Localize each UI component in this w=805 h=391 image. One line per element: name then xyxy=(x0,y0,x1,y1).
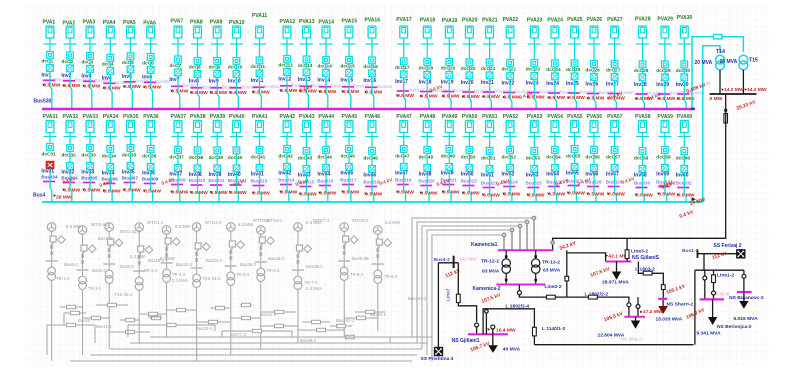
svg-text:Inv58: Inv58 xyxy=(634,172,647,178)
svg-text:dcC51: dcC51 xyxy=(481,155,496,161)
PV feeder unit PVA2: PV array, converter dcC2, inverter Inv2 xyxy=(61,21,90,109)
svg-text:PVA44: PVA44 xyxy=(319,114,335,120)
svg-text:TR-12-2: TR-12-2 xyxy=(481,259,499,265)
svg-text:Inv51: Inv51 xyxy=(481,172,494,178)
svg-text:NS Sharri-2: NS Sharri-2 xyxy=(667,302,694,308)
PV feeder unit PVA22: PV array, converter dcC22, inverter Inv22 xyxy=(502,17,531,109)
svg-text:0.5 MW: 0.5 MW xyxy=(63,83,80,89)
svg-text:Inv26: Inv26 xyxy=(585,82,598,88)
svg-text:6.3 MW: 6.3 MW xyxy=(238,222,254,227)
svg-text:TR-1-2: TR-1-2 xyxy=(56,276,70,281)
svg-text:PVA23: PVA23 xyxy=(527,18,543,24)
svg-text:15.033 MVA: 15.033 MVA xyxy=(656,316,683,322)
svg-text:37: 37 xyxy=(706,81,711,86)
svg-text:Bus4: Bus4 xyxy=(33,192,45,198)
svg-text:0.5 MW: 0.5 MW xyxy=(397,189,414,195)
PV feeder unit PVA23: PV array, converter dcC23, inverter Inv23 xyxy=(526,18,555,109)
svg-text:PVA53: PVA53 xyxy=(527,114,543,120)
de-energized wind farm collector network (gray) xyxy=(46,223,392,361)
svg-text:6.3 MW: 6.3 MW xyxy=(385,220,401,225)
svg-text:6.3 MW: 6.3 MW xyxy=(66,224,82,229)
svg-text:PVA8: PVA8 xyxy=(190,20,203,26)
SS Ferizaj 2 external grid xyxy=(698,253,737,255)
wind turbine WTG1-2 with unit transformer xyxy=(46,223,66,361)
svg-text:dcC7: dcC7 xyxy=(169,63,181,69)
svg-text:0.5 MW: 0.5 MW xyxy=(365,191,382,197)
svg-text:0.5 MW: 0.5 MW xyxy=(83,187,100,193)
svg-text:TR-8-2: TR-8-2 xyxy=(350,272,364,277)
svg-text:5.02 M: 5.02 M xyxy=(716,292,730,297)
svg-text:dcC55: dcC55 xyxy=(566,153,581,159)
PV feeder unit PVA31: PV array, converter dcC31, inverter Inv31 xyxy=(41,114,58,202)
feeder total power label 28 MW xyxy=(54,194,57,197)
svg-text:dcC6: dcC6 xyxy=(142,60,154,66)
svg-text:Bus530: Bus530 xyxy=(34,98,52,104)
svg-text:TR-7-2: TR-7-2 xyxy=(304,280,318,285)
svg-text:14.2 MW: 14.2 MW xyxy=(747,87,767,93)
PV feeder unit PVA7: PV array, converter dcC7, inverter Inv7 xyxy=(169,19,198,109)
svg-text:Inv17: Inv17 xyxy=(395,79,408,85)
svg-text:Inv16: Inv16 xyxy=(363,78,376,84)
svg-text:Inv20: Inv20 xyxy=(461,80,474,86)
svg-text:0.5 MW: 0.5 MW xyxy=(443,94,460,100)
PV feeder unit PVA13: PV array, converter dcC13, inverter Inv13 xyxy=(298,19,327,109)
svg-text:0.5 MW: 0.5 MW xyxy=(504,191,521,197)
svg-text:PVA58: PVA58 xyxy=(635,114,651,120)
busbar Bus4 (row 2 LV collector bus) xyxy=(42,201,703,203)
PV feeder unit PVA39: PV array, converter dcC39, inverter Inv39 xyxy=(208,114,227,202)
svg-text:0.5 MW: 0.5 MW xyxy=(211,90,228,96)
svg-text:dcC31: dcC31 xyxy=(41,151,56,157)
PV feeder unit PVA34: PV array, converter dcC34, inverter Inv34 xyxy=(102,114,121,202)
svg-text:Inv59: Inv59 xyxy=(656,171,669,177)
svg-text:Inv47: Inv47 xyxy=(395,170,408,176)
PV feeder unit PVA50: PV array, converter dcC50, inverter Inv50 xyxy=(461,114,480,202)
PV feeder unit PVA15: PV array, converter dcC15, inverter Inv15 xyxy=(340,19,369,109)
svg-text:Bus7-2: Bus7-2 xyxy=(98,236,112,241)
svg-text:Bus10-2: Bus10-2 xyxy=(370,312,387,317)
PV feeder unit PVA44: PV array, converter dcC44, inverter Inv44 xyxy=(317,114,336,202)
PV feeder unit PVA38: PV array, converter dcC38, inverter Inv38 xyxy=(189,114,208,202)
svg-text:PVA49: PVA49 xyxy=(442,114,458,120)
PV feeder unit PVA28: PV array, converter dcC28, inverter Inv28 xyxy=(634,17,663,109)
PV feeder unit PVA56: PV array, converter dcC56, inverter Inv56 xyxy=(585,114,604,202)
svg-text:dcC25: dcC25 xyxy=(566,67,581,73)
svg-text:dcC52: dcC52 xyxy=(502,154,517,160)
svg-text:WTG5-2: WTG5-2 xyxy=(253,218,270,223)
PV feeder unit PVA4: PV array, converter dcC4, inverter Inv4 xyxy=(102,20,131,109)
svg-text:PVA17: PVA17 xyxy=(396,17,412,23)
svg-text:Inv10: Inv10 xyxy=(228,79,241,85)
svg-text:PVA24: PVA24 xyxy=(547,18,563,24)
PV feeder unit PVA41: PV array, converter dcC41, inverter Inv41 xyxy=(251,114,270,202)
svg-text:dcC3: dcC3 xyxy=(81,59,93,65)
PV feeder unit PVA24: PV array, converter dcC24, inverter Inv24 xyxy=(546,18,575,109)
wind turbine WTG10-2 with unit transformer xyxy=(338,223,358,337)
svg-text:16.4 MW: 16.4 MW xyxy=(496,327,516,333)
svg-text:PVA39: PVA39 xyxy=(210,114,226,120)
svg-text:PVA38: PVA38 xyxy=(190,114,206,120)
svg-text:NS Berivojca-2: NS Berivojca-2 xyxy=(717,324,752,330)
wind turbine WTG3-2 with unit transformer xyxy=(103,223,123,349)
svg-text:0.5 MW: 0.5 MW xyxy=(280,189,297,195)
svg-text:Inv18: Inv18 xyxy=(419,80,432,86)
wind turbine WTG9-2 with unit transformer xyxy=(292,223,312,343)
svg-text:0.5 MW: 0.5 MW xyxy=(191,190,208,196)
svg-text:Inv49: Inv49 xyxy=(441,170,454,176)
svg-text:PVA35: PVA35 xyxy=(123,114,139,120)
svg-text:0.5 MW: 0.5 MW xyxy=(171,89,188,95)
PV feeder unit PVA19: PV array, converter dcC19, inverter Inv19 xyxy=(441,18,470,109)
svg-text:dcC15: dcC15 xyxy=(340,63,355,69)
svg-text:0.5 MW: 0.5 MW xyxy=(397,93,414,99)
Kamenica-2 busbar xyxy=(496,284,545,286)
PV feeder unit PVA57: PV array, converter dcC57, inverter Inv57 xyxy=(606,114,625,202)
cyan riser from Bus4 to transformer T14 xyxy=(703,46,720,202)
PV feeder unit PVA32: PV array, converter dcC32, inverter Inv32 xyxy=(61,114,80,202)
svg-text:Inv14: Inv14 xyxy=(317,78,330,84)
svg-text:0.5 MW: 0.5 MW xyxy=(124,187,141,193)
transformer TR-12-2 63 MVA xyxy=(505,250,507,258)
svg-text:Inv45: Inv45 xyxy=(340,170,353,176)
svg-text:Inv12: Inv12 xyxy=(278,77,291,83)
svg-text:0.5 MW: 0.5 MW xyxy=(144,85,161,91)
svg-text:PVA45: PVA45 xyxy=(342,114,358,120)
svg-text:Bus5-2: Bus5-2 xyxy=(92,268,106,273)
svg-text:Inv19: Inv19 xyxy=(441,80,454,86)
svg-text:dcC49: dcC49 xyxy=(441,153,456,159)
svg-text:6.3 MW: 6.3 MW xyxy=(175,224,191,229)
wind turbine WTG2-2 with unit transformer xyxy=(77,226,97,355)
svg-text:TXS-26-2: TXS-26-2 xyxy=(114,292,133,297)
svg-text:20 MVA: 20 MVA xyxy=(695,60,713,66)
svg-text:dcC44: dcC44 xyxy=(317,154,332,160)
svg-text:0 MW: 0 MW xyxy=(710,96,723,102)
PV feeder unit PVA12: PV array, converter dcC12, inverter Inv12 xyxy=(278,19,307,109)
svg-text:0.5 MW: 0.5 MW xyxy=(568,190,585,196)
svg-text:PVA36: PVA36 xyxy=(143,114,159,120)
svg-text:TR-3-2: TR-3-2 xyxy=(144,268,158,273)
svg-text:63 MVA: 63 MVA xyxy=(482,268,500,274)
svg-text:PVA10: PVA10 xyxy=(229,20,245,26)
feeder from Kamencia1 to NS GjilaniS xyxy=(567,250,606,261)
svg-text:Inv50: Inv50 xyxy=(461,171,474,177)
svg-text:14.2 MW: 14.2 MW xyxy=(724,87,744,93)
svg-text:0.3 MVA: 0.3 MVA xyxy=(306,286,322,291)
svg-text:PVA3: PVA3 xyxy=(83,20,96,26)
svg-text:Inv22: Inv22 xyxy=(502,81,515,87)
svg-text:dcC32: dcC32 xyxy=(61,152,76,158)
svg-text:L 1802/2-4: L 1802/2-4 xyxy=(506,303,530,309)
svg-text:Inv55: Inv55 xyxy=(566,170,579,176)
load 5.016 MVA xyxy=(743,292,745,301)
svg-text:NS Vitia-2: NS Vitia-2 xyxy=(621,337,642,342)
PV feeder unit PVA47: PV array, converter dcC47, inverter Inv47 xyxy=(395,114,414,202)
wind turbine WTG7-2 with unit transformer xyxy=(225,223,245,355)
cyan MV riser from Bus530 to transformer T15 xyxy=(692,37,743,109)
svg-text:WTG7-2: WTG7-2 xyxy=(313,218,330,223)
svg-text:0.5 MW: 0.5 MW xyxy=(43,83,60,89)
svg-text:PVA11: PVA11 xyxy=(252,13,267,19)
svg-text:0.5 MW: 0.5 MW xyxy=(548,95,565,101)
svg-text:PVA43: PVA43 xyxy=(299,114,315,120)
line to NS Bujanovc-2 xyxy=(743,270,745,292)
svg-text:PVA21: PVA21 xyxy=(482,18,498,24)
svg-text:WTG4-2: WTG4-2 xyxy=(205,220,222,225)
svg-text:Inv48: Inv48 xyxy=(419,171,432,177)
svg-text:Bus26-2: Bus26-2 xyxy=(240,262,257,267)
PV feeder unit PVA35: PV array, converter dcC35, inverter Inv35 xyxy=(122,114,141,202)
svg-text:PVA27: PVA27 xyxy=(607,17,623,23)
svg-text:PVA18: PVA18 xyxy=(420,18,436,24)
PV feeder unit PVA17: PV array, converter dcC17, inverter Inv17 xyxy=(395,17,424,109)
line Line7 from Bus4-2 to NS Gjilani1 xyxy=(458,263,476,322)
svg-text:dcC37: dcC37 xyxy=(169,154,184,160)
load 9.341 MVA xyxy=(712,299,714,317)
busbar NS Sharri-2 xyxy=(658,298,667,300)
svg-text:Bunb-2B: Bunb-2B xyxy=(352,256,369,261)
SS Prishtina 4 external grid connection xyxy=(437,263,439,349)
PV feeder unit PVA52: PV array, converter dcC52, inverter Inv52 xyxy=(501,114,520,202)
svg-text:63 MVA: 63 MVA xyxy=(543,268,561,274)
busbar NS Gjilani1 xyxy=(468,333,508,335)
svg-text:Bus516: Bus516 xyxy=(377,84,393,89)
svg-text:0.5 MW: 0.5 MW xyxy=(342,89,359,95)
svg-text:Inv56: Inv56 xyxy=(585,171,598,177)
busbar NS Vitia-2 xyxy=(624,316,645,318)
svg-text:dcC59: dcC59 xyxy=(656,154,671,160)
svg-text:PVA28: PVA28 xyxy=(635,17,651,23)
svg-text:dcC8: dcC8 xyxy=(189,64,201,70)
svg-text:L 1140/1-2: L 1140/1-2 xyxy=(542,326,566,332)
svg-text:dcC45: dcC45 xyxy=(340,153,355,159)
svg-text:Inv43: Inv43 xyxy=(298,172,311,178)
svg-text:Bus77-2: Bus77-2 xyxy=(230,332,247,337)
svg-text:dcC19: dcC19 xyxy=(441,65,456,71)
PV feeder unit PVA16: PV array, converter dcC16, inverter Inv16 xyxy=(363,18,392,109)
PV feeder unit PVA43: PV array, converter dcC43, inverter Inv43 xyxy=(298,114,317,202)
wind turbine WTG11-2 with unit transformer xyxy=(372,226,392,331)
svg-text:6.3 MW: 6.3 MW xyxy=(160,256,176,261)
svg-text:dcC46: dcC46 xyxy=(363,155,378,161)
svg-text:dcC35: dcC35 xyxy=(122,152,137,158)
svg-text:Line3-2: Line3-2 xyxy=(631,248,648,254)
PV feeder unit PVA27: PV array, converter dcC27, inverter Inv27 xyxy=(606,17,635,109)
PV feeder unit PVA48: PV array, converter dcC48, inverter Inv48 xyxy=(418,114,437,202)
svg-text:0.5 MW: 0.5 MW xyxy=(608,191,625,197)
svg-text:PVA29: PVA29 xyxy=(657,17,673,23)
svg-text:dcC40: dcC40 xyxy=(228,155,243,161)
transformer T15 xyxy=(739,55,748,64)
svg-text:Inv44: Inv44 xyxy=(317,171,330,177)
svg-text:Kamenica-2: Kamenica-2 xyxy=(473,286,501,292)
svg-text:WTG-31-2: WTG-31-2 xyxy=(120,229,141,234)
PV feeder unit PVA30: PV array, converter dcC30, inverter Inv30 xyxy=(676,15,705,109)
svg-text:Bus102-2: Bus102-2 xyxy=(336,318,355,323)
PV feeder unit PVA5: PV array, converter dcC5, inverter Inv5 xyxy=(122,20,151,109)
svg-text:PVA54: PVA54 xyxy=(547,114,563,120)
svg-text:Bus4-2: Bus4-2 xyxy=(434,257,451,263)
wind turbine WTG8-2 with unit transformer xyxy=(255,226,275,349)
svg-text:dcC57: dcC57 xyxy=(606,154,621,160)
PV feeder unit PVA10: PV array, converter dcC10, inverter Inv10 xyxy=(228,20,257,109)
svg-text:PVA7: PVA7 xyxy=(171,19,184,25)
svg-text:Bus30: Bus30 xyxy=(78,318,91,323)
svg-text:Inv30: Inv30 xyxy=(676,82,689,88)
svg-text:Bus22-2: Bus22-2 xyxy=(176,262,193,267)
svg-text:0.5 MW: 0.5 MW xyxy=(463,190,480,196)
svg-text:Kamencia1: Kamencia1 xyxy=(471,242,498,248)
svg-text:dcC10: dcC10 xyxy=(228,64,243,70)
svg-text:0.5 MW: 0.5 MW xyxy=(658,191,675,197)
svg-text:dcC12: dcC12 xyxy=(278,62,293,68)
svg-text:PVA20: PVA20 xyxy=(462,18,478,24)
svg-text:0.5 MW: 0.5 MW xyxy=(421,190,438,196)
svg-text:dcC50: dcC50 xyxy=(461,154,476,160)
svg-text:TR-13-2: TR-13-2 xyxy=(542,260,560,266)
svg-text:PVA13: PVA13 xyxy=(299,19,315,25)
svg-text:14.5 MW: 14.5 MW xyxy=(459,257,477,262)
PV feeder unit PVA26: PV array, converter dcC26, inverter Inv26 xyxy=(585,17,614,109)
svg-text:Inv28: Inv28 xyxy=(634,82,647,88)
svg-text:Inv46: Inv46 xyxy=(363,172,376,178)
svg-text:PVA50: PVA50 xyxy=(462,114,478,120)
svg-text:20 MVA: 20 MVA xyxy=(720,59,738,65)
PV feeder unit PVA55: PV array, converter dcC55, inverter Inv55 xyxy=(566,114,585,202)
svg-text:PVA41: PVA41 xyxy=(252,114,268,120)
35 kV busbar xyxy=(710,93,757,95)
svg-text:TR-4-2: TR-4-2 xyxy=(172,272,186,277)
svg-text:0.5 MW: 0.5 MW xyxy=(483,192,500,198)
svg-text:dcC18: dcC18 xyxy=(419,65,434,71)
svg-text:6.3 MW: 6.3 MW xyxy=(130,254,146,259)
svg-text:Bus99-2: Bus99-2 xyxy=(300,338,317,343)
svg-text:0.5 MW: 0.5 MW xyxy=(636,192,653,198)
svg-text:Line2-2: Line2-2 xyxy=(545,284,562,290)
PV feeder unit PVA53: PV array, converter dcC53, inverter Inv53 xyxy=(526,114,545,202)
svg-text:dcC24: dcC24 xyxy=(546,67,561,73)
svg-text:PVA1: PVA1 xyxy=(43,20,56,26)
svg-text:dcC39: dcC39 xyxy=(209,155,224,161)
svg-text:0.5 MW: 0.5 MW xyxy=(253,190,270,196)
svg-text:PVA47: PVA47 xyxy=(396,114,412,120)
svg-text:0.5 MW: 0.5 MW xyxy=(342,189,359,195)
svg-text:dcC14: dcC14 xyxy=(317,63,332,69)
wind turbine WTG4-2 with unit transformer xyxy=(133,223,153,343)
PV feeder unit PVA36: PV array, converter dcC36, inverter Inv36 xyxy=(142,114,161,202)
svg-text:dcC41: dcC41 xyxy=(251,154,266,160)
svg-text:40 MVA: 40 MVA xyxy=(503,346,521,352)
PV feeder unit PVA18: PV array, converter dcC18, inverter Inv18 xyxy=(419,18,448,109)
svg-text:dcC60: dcC60 xyxy=(676,155,691,161)
svg-text:NS Bujanovc-2: NS Bujanovc-2 xyxy=(729,295,764,301)
svg-text:dcC43: dcC43 xyxy=(298,155,313,161)
svg-text:0.5 MW: 0.5 MW xyxy=(421,94,438,100)
svg-text:PVA33: PVA33 xyxy=(83,114,99,120)
load at NS Gjilani1 40 MVA xyxy=(491,325,495,329)
svg-text:PVA51: PVA51 xyxy=(482,114,498,120)
svg-text:Inv41: Inv41 xyxy=(251,171,264,177)
svg-text:PVA32: PVA32 xyxy=(63,114,79,120)
svg-text:0.5 MW: 0.5 MW xyxy=(587,191,604,197)
svg-text:dcC21: dcC21 xyxy=(481,66,496,72)
svg-text:Inv54: Inv54 xyxy=(546,171,559,177)
svg-text:dcC48: dcC48 xyxy=(419,154,434,160)
svg-text:0.5 MW: 0.5 MW xyxy=(587,96,604,102)
svg-text:PVA40: PVA40 xyxy=(229,114,245,120)
HV stubs from transformers to 35 kV bus xyxy=(719,70,721,94)
svg-text:Inv23: Inv23 xyxy=(526,81,539,87)
svg-text:dcC4: dcC4 xyxy=(102,61,114,67)
svg-text:SS Ferizaj 2: SS Ferizaj 2 xyxy=(714,243,742,249)
svg-text:28 MW: 28 MW xyxy=(56,194,72,200)
svg-text:SS Prishtina 4: SS Prishtina 4 xyxy=(421,356,454,362)
power flow labels at 35 kV bus xyxy=(722,88,724,90)
svg-text:dcC58: dcC58 xyxy=(634,155,649,161)
svg-text:dcC16: dcC16 xyxy=(363,64,378,70)
svg-text:0.5 MW: 0.5 MW xyxy=(230,190,247,196)
wind turbine WTG6-2 with unit transformer xyxy=(191,223,211,361)
svg-text:dcC5: dcC5 xyxy=(122,60,134,66)
svg-text:dcC33: dcC33 xyxy=(81,152,96,158)
svg-text:5.016 MVA: 5.016 MVA xyxy=(734,316,759,322)
svg-text:Inv60: Inv60 xyxy=(676,172,689,178)
PV feeder unit PVA51: PV array, converter dcC51, inverter Inv51 xyxy=(481,114,500,202)
svg-text:L 1802/2-2: L 1802/2-2 xyxy=(585,292,609,298)
busbar NS GjilaniS xyxy=(606,261,632,263)
svg-text:0.5 MW: 0.5 MW xyxy=(191,90,208,96)
svg-text:Bus22-2: Bus22-2 xyxy=(196,326,213,331)
fuse on riser xyxy=(714,35,723,39)
svg-text:Bus1-2: Bus1-2 xyxy=(682,248,699,254)
svg-text:dcC36: dcC36 xyxy=(142,153,157,159)
svg-text:PVA59: PVA59 xyxy=(657,114,673,120)
svg-text:T15: T15 xyxy=(749,57,758,63)
svg-text:28.071 MVA: 28.071 MVA xyxy=(602,280,629,286)
svg-text:Inv27: Inv27 xyxy=(606,82,619,88)
svg-text:PVA26: PVA26 xyxy=(587,17,603,23)
svg-text:0.5 MW: 0.5 MW xyxy=(211,190,228,196)
svg-text:Inv53: Inv53 xyxy=(526,172,539,178)
svg-text:PVA52: PVA52 xyxy=(503,114,519,120)
svg-text:dcC54: dcC54 xyxy=(546,154,561,160)
busbar NS Berivojca-2 xyxy=(700,298,724,300)
svg-text:dcC29: dcC29 xyxy=(656,68,671,74)
svg-text:dcC47: dcC47 xyxy=(395,153,410,159)
load 15.033 MVA at NS Sharri-2 xyxy=(662,300,664,306)
svg-text:0.5 MW: 0.5 MW xyxy=(104,86,121,92)
svg-text:NS GjilaniS: NS GjilaniS xyxy=(632,255,660,261)
svg-text:0.5 MW: 0.5 MW xyxy=(658,96,675,102)
svg-text:dcC9: dcC9 xyxy=(209,64,221,70)
svg-text:PVA31: PVA31 xyxy=(43,114,59,120)
svg-text:dcC53: dcC53 xyxy=(526,155,541,161)
svg-text:Bus511: Bus511 xyxy=(264,84,280,89)
svg-text:dcC22: dcC22 xyxy=(502,66,517,72)
gray collector cables xyxy=(47,218,534,361)
load 22.804 MVA at NS Vitia-2 xyxy=(635,317,637,321)
PV feeder unit PVA6: PV array, converter dcC6, inverter Inv6 xyxy=(142,21,171,109)
line L 1802/2-2 from Kamenica-2 to NS Vitia-2 xyxy=(519,285,629,317)
svg-text:PVA46: PVA46 xyxy=(365,114,381,120)
svg-text:PVA42: PVA42 xyxy=(280,114,296,120)
PV feeder unit PVA46: PV array, converter dcC46, inverter Inv46 xyxy=(363,114,382,202)
svg-text:PVA60: PVA60 xyxy=(677,114,693,120)
svg-text:PVA5: PVA5 xyxy=(123,20,136,26)
svg-text:T14: T14 xyxy=(716,49,725,55)
svg-text:dcC42: dcC42 xyxy=(278,153,293,159)
PV feeder unit PVA14: PV array, converter dcC14, inverter Inv14 xyxy=(317,20,346,109)
